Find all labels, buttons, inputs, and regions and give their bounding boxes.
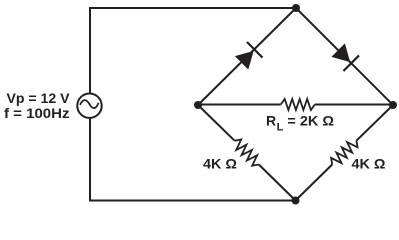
svg-text:4K Ω: 4K Ω	[352, 155, 386, 171]
wire top-left arm with diode D1	[198, 8, 296, 105]
diode D1	[234, 42, 263, 71]
wire bottom-left arm leads	[198, 105, 235, 141]
resistor RL zigzag	[281, 99, 315, 110]
node top	[292, 4, 300, 12]
wire top: source top to top node	[90, 8, 296, 94]
node bottom	[292, 197, 300, 205]
svg-text:Vp = 12 V: Vp = 12 V	[7, 90, 71, 106]
wire middle leads	[198, 104, 281, 106]
resistor R1 4K zigzag	[235, 140, 259, 166]
svg-text:= 2K Ω: = 2K Ω	[287, 113, 334, 129]
resistor R2 4K zigzag	[331, 141, 357, 165]
wire bottom-right arm leads	[296, 165, 333, 201]
diode D2	[330, 42, 359, 71]
svg-text:R: R	[266, 113, 276, 129]
wire top-right arm with diode D2	[296, 8, 393, 105]
node left	[194, 101, 202, 109]
AC source V1	[77, 94, 101, 118]
svg-text:L: L	[277, 122, 284, 134]
svg-text:4K Ω: 4K Ω	[203, 155, 237, 171]
node right	[389, 101, 397, 109]
svg-text:f = 100Hz: f = 100Hz	[4, 105, 70, 121]
wire bottom: source bottom to bottom node	[90, 118, 296, 201]
